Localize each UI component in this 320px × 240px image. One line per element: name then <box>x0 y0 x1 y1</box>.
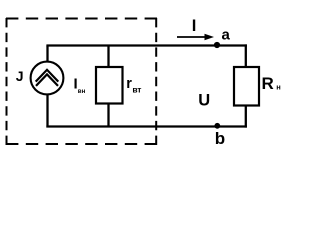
svg-text:U: U <box>198 91 210 109</box>
svg-text:b: b <box>215 129 225 148</box>
svg-text:r: r <box>126 76 132 92</box>
wire resistor r_vt bottom stem <box>107 104 109 127</box>
dashed source boundary box <box>6 18 157 145</box>
current arrow I above top rail <box>177 36 208 38</box>
wire load branch right vertical top <box>245 44 247 67</box>
svg-text:I: I <box>192 17 197 35</box>
svg-text:R: R <box>262 74 274 93</box>
wire current source bottom stem <box>46 95 48 128</box>
current source arrow chevron inner <box>36 74 58 86</box>
node a junction dot <box>214 42 220 48</box>
wire resistor r_vt top stem <box>107 46 109 68</box>
current source J circle <box>31 62 64 95</box>
svg-text:н: н <box>276 83 281 92</box>
svg-text:вн: вн <box>78 88 86 95</box>
wire top rail from current source to node a corner <box>46 44 247 46</box>
svg-text:a: a <box>222 27 231 44</box>
resistor r_vt body <box>96 67 123 104</box>
load resistor R_n body <box>234 67 259 106</box>
svg-text:J: J <box>16 68 24 84</box>
svg-text:т: т <box>137 85 141 95</box>
wire current source top stem <box>46 46 48 63</box>
wire load branch right vertical bottom <box>245 106 247 128</box>
node b junction dot <box>214 123 220 129</box>
wire bottom rail from current source to node b corner <box>46 125 247 127</box>
current source arrow chevron outer <box>36 70 59 82</box>
